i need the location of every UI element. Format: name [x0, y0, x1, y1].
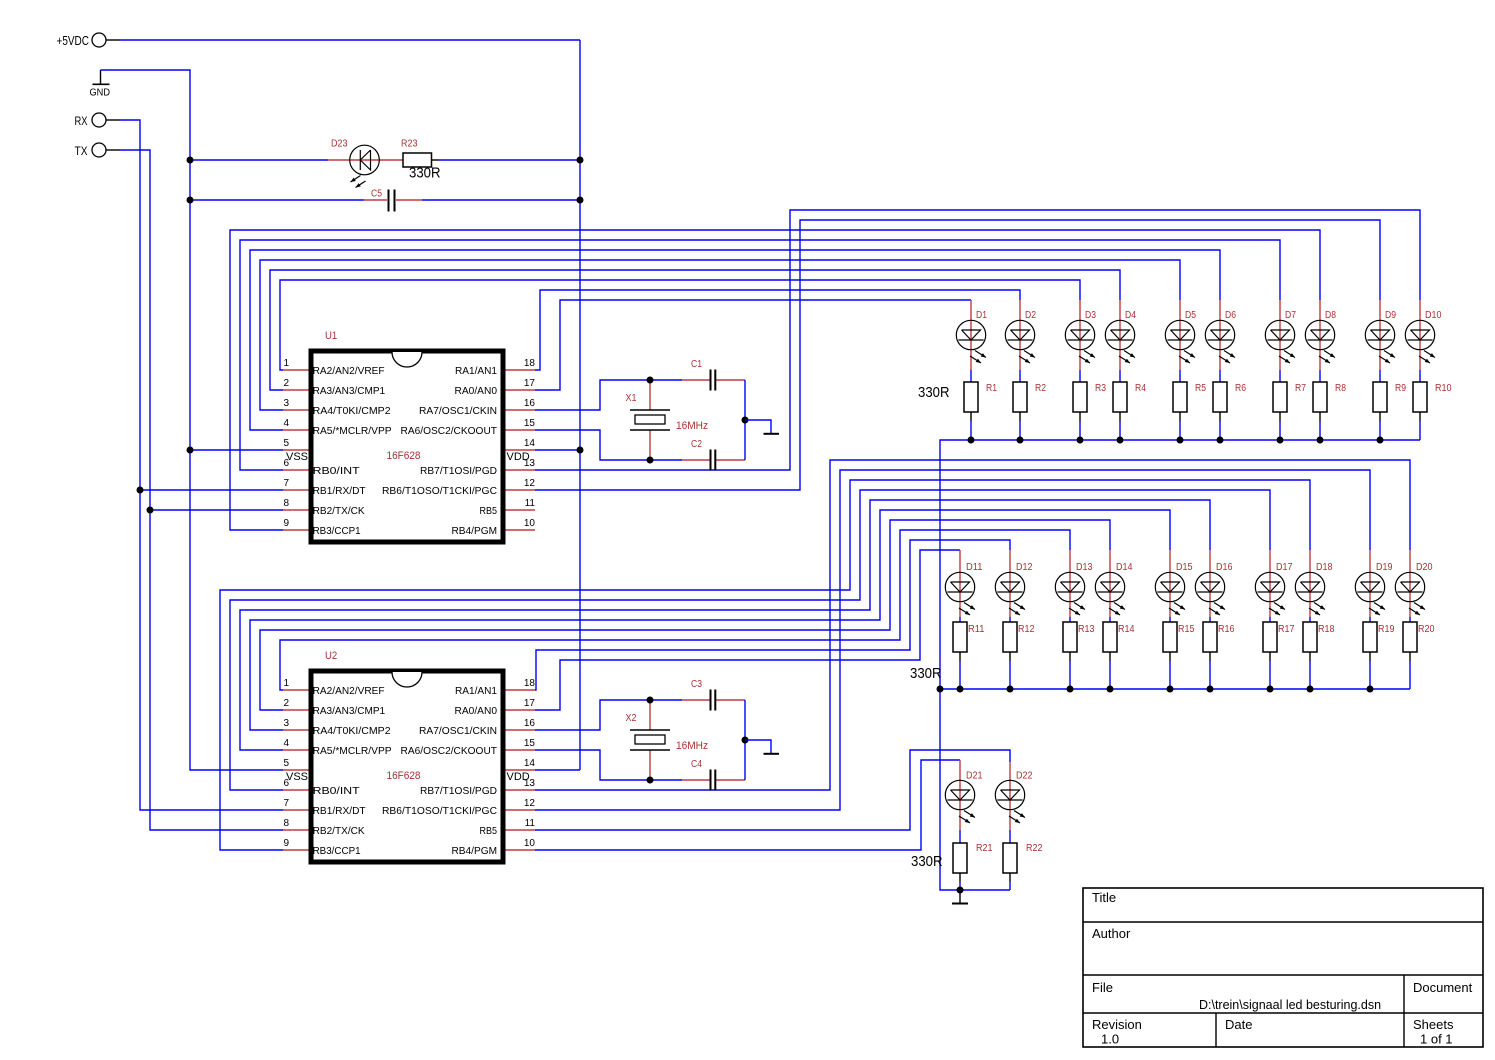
- svg-text:16F628: 16F628: [387, 770, 421, 782]
- svg-text:16: 16: [524, 398, 536, 409]
- U2 pin 7 RB1/RX/DT: [283, 798, 366, 817]
- resistor R20: [1403, 622, 1435, 661]
- junction (1020,440): [1017, 437, 1024, 444]
- LED D3: [1065, 300, 1096, 370]
- junction (580,450): [577, 447, 584, 454]
- LED D8: [1305, 300, 1336, 370]
- junction (150,510): [147, 507, 154, 514]
- title block: [1083, 888, 1483, 1047]
- resistor R15: [1163, 622, 1195, 661]
- wire R20 to bus: [1409, 661, 1411, 689]
- junction (650,780): [647, 777, 654, 784]
- junction (650,380): [647, 377, 654, 384]
- svg-text:R20: R20: [1418, 624, 1435, 635]
- junction (1380,440): [1377, 437, 1384, 444]
- U2 pin 12 RB6/T1OSO/T1CKI/PGC: [382, 798, 535, 817]
- svg-text:RB5: RB5: [480, 505, 498, 517]
- svg-text:18: 18: [524, 678, 536, 689]
- svg-text:R4: R4: [1135, 383, 1146, 394]
- U2 pin 8 RB2/TX/CK: [283, 818, 365, 837]
- LED D20: [1395, 550, 1433, 617]
- wire U1 pin12 RB6 to D9: [535, 220, 1380, 490]
- ground symbol near X2: [764, 753, 780, 755]
- svg-text:RA0/AN0: RA0/AN0: [455, 705, 498, 717]
- U1 pin 17 RA0/AN0: [455, 378, 536, 397]
- wire R10 to bus: [1419, 421, 1421, 440]
- svg-text:2: 2: [284, 698, 290, 709]
- wire U2 pin12 RB6 to D19: [535, 470, 1370, 810]
- LED D23: [328, 139, 403, 190]
- wire to ground X2: [745, 740, 771, 753]
- junction (190,160): [187, 157, 194, 164]
- LED D1: [956, 300, 987, 370]
- resistor R10: [1413, 382, 1452, 421]
- svg-text:1: 1: [284, 678, 290, 689]
- svg-text:16: 16: [524, 718, 536, 729]
- svg-text:R18: R18: [1318, 624, 1335, 635]
- svg-text:GND: GND: [90, 88, 111, 99]
- svg-text:13: 13: [524, 778, 536, 789]
- svg-text:D13: D13: [1076, 562, 1093, 573]
- ground symbol near X1: [764, 433, 780, 435]
- wire D2 to R2: [1019, 370, 1021, 382]
- capacitor C5: [364, 189, 422, 212]
- svg-text:16MHz: 16MHz: [676, 740, 708, 752]
- wire R1 to bus: [970, 421, 972, 440]
- wire D17 to R17: [1269, 617, 1271, 622]
- svg-text:RB4/PGM: RB4/PGM: [452, 525, 498, 537]
- svg-text:R16: R16: [1218, 624, 1235, 635]
- svg-text:5: 5: [284, 758, 290, 769]
- svg-text:330R: 330R: [918, 384, 950, 401]
- wire D14 to R14: [1109, 617, 1111, 622]
- U2 pin 9 RB3/CCP1: [283, 838, 361, 857]
- svg-text:RB5: RB5: [480, 825, 498, 837]
- junction (650,460): [647, 457, 654, 464]
- svg-text:D17: D17: [1276, 562, 1293, 573]
- svg-text:X1: X1: [626, 393, 637, 404]
- wire R11 to bus: [959, 661, 961, 689]
- resistor R6: [1213, 382, 1246, 421]
- wire U1 pin16 OSC1 to X1 top: [535, 380, 682, 410]
- LED D15: [1155, 550, 1193, 617]
- label 330R D21 D22: [911, 853, 943, 870]
- wire RX to U1 pin7 and U2 pin7: [120, 120, 283, 810]
- wire D7 to R7: [1279, 370, 1281, 382]
- svg-text:16F628: 16F628: [387, 450, 421, 462]
- svg-text:R17: R17: [1278, 624, 1295, 635]
- U2 pin 17 RA0/AN0: [455, 698, 536, 717]
- svg-text:D12: D12: [1016, 562, 1033, 573]
- junction (190,200): [187, 197, 194, 204]
- wire U1 VDD to +5VDC rail: [535, 449, 580, 451]
- U2 pin 13 RB7/T1OSI/PGD: [420, 778, 535, 797]
- svg-text:12: 12: [524, 478, 536, 489]
- wire R9 to bus: [1379, 421, 1381, 440]
- svg-text:R23: R23: [401, 139, 418, 150]
- resistor R8: [1313, 382, 1346, 421]
- svg-text:RA6/OSC2/CKOOUT: RA6/OSC2/CKOOUT: [401, 745, 498, 757]
- wire D20 to R20: [1409, 617, 1411, 622]
- junction (1110,689): [1107, 686, 1114, 693]
- resistor R14: [1103, 622, 1135, 661]
- svg-text:D23: D23: [331, 139, 348, 150]
- junction (1180,440): [1177, 437, 1184, 444]
- svg-text:6: 6: [284, 458, 290, 469]
- LED D19: [1355, 550, 1393, 617]
- svg-text:D18: D18: [1316, 562, 1333, 573]
- wire C5 to +5VDC: [422, 199, 580, 201]
- junction (1220,440): [1217, 437, 1224, 444]
- wire U2 pin2 RA3 to D14: [260, 520, 1110, 710]
- wire TX to U1 pin8 and U2 pin8: [120, 150, 283, 830]
- wire D3 to R3: [1079, 370, 1081, 382]
- wire U2 pin4 RA5 to D16: [240, 500, 1210, 750]
- U1 pin 18 RA1/AN1: [455, 358, 535, 377]
- svg-text:8: 8: [284, 818, 290, 829]
- wire to ground X1: [745, 420, 771, 433]
- wire R8 to bus: [1319, 421, 1321, 440]
- resistor R23: [401, 139, 441, 182]
- svg-text:D16: D16: [1216, 562, 1233, 573]
- svg-text:D8: D8: [1325, 310, 1336, 321]
- resistor R7: [1273, 382, 1306, 421]
- svg-text:RB2/TX/CK: RB2/TX/CK: [313, 505, 365, 517]
- LED D4: [1105, 300, 1136, 370]
- wire U1 pin1 RA2 to D3: [280, 280, 1080, 370]
- wire D19 to R19: [1369, 617, 1371, 622]
- U1 pin 6 RB0/INT: [283, 458, 360, 477]
- svg-text:D11: D11: [966, 562, 983, 573]
- wire R16 to bus: [1209, 661, 1211, 689]
- label 330R row2: [910, 665, 942, 682]
- wire R3 to bus: [1079, 421, 1081, 440]
- junction (580,160): [577, 157, 584, 164]
- capacitor C1: [682, 359, 745, 391]
- svg-text:4: 4: [284, 738, 290, 749]
- svg-text:VSS: VSS: [286, 451, 308, 463]
- svg-text:14: 14: [524, 758, 536, 769]
- wire D9 to R9: [1379, 370, 1381, 382]
- junction (1120,440): [1117, 437, 1124, 444]
- wire D10 to R10: [1419, 370, 1421, 382]
- svg-text:1: 1: [284, 358, 290, 369]
- svg-text:RB4/PGM: RB4/PGM: [452, 845, 498, 857]
- svg-text:10: 10: [524, 838, 536, 849]
- resistor R21: [953, 843, 993, 882]
- svg-text:RB7/T1OSI/PGD: RB7/T1OSI/PGD: [420, 465, 497, 477]
- svg-text:RB1/RX/DT: RB1/RX/DT: [313, 805, 367, 817]
- svg-text:11: 11: [525, 498, 536, 509]
- wire R17 to bus: [1269, 661, 1271, 689]
- svg-text:Revision: Revision: [1092, 1017, 1142, 1032]
- resistor R22: [1003, 843, 1043, 882]
- svg-text:RA6/OSC2/CKOOUT: RA6/OSC2/CKOOUT: [401, 425, 498, 437]
- svg-text:D20: D20: [1416, 562, 1433, 573]
- junction (1210,689): [1207, 686, 1214, 693]
- wire R12 to bus: [1009, 661, 1011, 689]
- svg-text:U1: U1: [325, 330, 337, 342]
- junction (1270,689): [1267, 686, 1274, 693]
- U1 pin 5 VSS: [283, 438, 309, 463]
- svg-text:17: 17: [524, 698, 536, 709]
- ground symbol bottom: [952, 890, 968, 904]
- IC U1 16F628 body: [311, 330, 503, 542]
- svg-text:8: 8: [284, 498, 290, 509]
- wire D12 to R12: [1009, 617, 1011, 622]
- svg-text:RB0/INT: RB0/INT: [313, 465, 361, 477]
- LED D21: [945, 760, 983, 830]
- svg-text:R12: R12: [1018, 624, 1035, 635]
- ground symbol GND: [90, 70, 111, 99]
- wire D5 to R5: [1179, 370, 1181, 382]
- wire U2 pin1 RA2 to D13: [280, 530, 1070, 690]
- svg-text:3: 3: [284, 398, 290, 409]
- wire U1 pin15 OSC2 to X1 bottom: [535, 430, 682, 460]
- LED D10: [1405, 300, 1442, 370]
- wire U2 pin6 RB0 to D17: [230, 490, 1270, 790]
- svg-text:RX: RX: [75, 116, 88, 128]
- junction (745,420): [742, 417, 749, 424]
- svg-text:330R: 330R: [910, 665, 942, 682]
- svg-text:D21: D21: [966, 771, 983, 782]
- svg-text:File: File: [1092, 980, 1113, 995]
- svg-text:Author: Author: [1092, 926, 1131, 941]
- wire U2 pin9 RB3 to D18: [220, 480, 1310, 850]
- svg-text:RA5/*MCLR/VPP: RA5/*MCLR/VPP: [313, 745, 392, 757]
- svg-text:15: 15: [524, 418, 536, 429]
- wire R2 to bus: [1019, 421, 1021, 440]
- U1 pin 16 RA7/OSC1/CKIN: [419, 398, 535, 417]
- svg-text:D2: D2: [1025, 310, 1036, 321]
- wire U1 pin18 RA1 to D2: [535, 290, 1020, 370]
- wire U2 pin16 OSC1 to X2 top: [535, 700, 682, 730]
- svg-text:RA0/AN0: RA0/AN0: [455, 385, 498, 397]
- svg-text:RA3/AN3/CMP1: RA3/AN3/CMP1: [313, 705, 386, 717]
- U1 pin 4 RA5/*MCLR/VPP: [283, 418, 392, 437]
- resistor R9: [1373, 382, 1406, 421]
- crystal X2 16MHz: [626, 700, 709, 780]
- LED D18: [1295, 550, 1333, 617]
- svg-text:330R: 330R: [409, 165, 441, 182]
- resistor R3: [1073, 382, 1106, 421]
- U1 pin 10 RB4/PGM: [452, 518, 536, 537]
- wire D18 to R18: [1309, 617, 1311, 622]
- wire GND net to U1 VSS and U2 VSS: [101, 70, 284, 770]
- U1 pin 2 RA3/AN3/CMP1: [283, 378, 385, 397]
- U2 pin 15 RA6/OSC2/CKOOUT: [401, 738, 536, 757]
- svg-text:10: 10: [524, 518, 536, 529]
- resistor R18: [1303, 622, 1335, 661]
- svg-text:D3: D3: [1085, 310, 1096, 321]
- wire D11 to R11: [959, 617, 961, 622]
- junction (190,450): [187, 447, 194, 454]
- svg-text:C4: C4: [691, 759, 702, 770]
- svg-text:R19: R19: [1378, 624, 1395, 635]
- wire LED row1 ground bus: [940, 440, 1420, 890]
- wire U1 VSS to GND rail: [190, 449, 283, 451]
- svg-text:14: 14: [524, 438, 536, 449]
- junction (1070,689): [1067, 686, 1074, 693]
- U2 pin 16 RA7/OSC1/CKIN: [419, 718, 535, 737]
- svg-text:RB0/INT: RB0/INT: [313, 785, 361, 797]
- wire U1 pin9 RB3 to D8: [230, 230, 1320, 530]
- svg-text:D1: D1: [976, 310, 987, 321]
- U1 pin 1 RA2/AN2/VREF: [283, 358, 385, 377]
- wire U1 pin7 RB1 to RX rail: [140, 489, 283, 491]
- svg-text:5: 5: [284, 438, 290, 449]
- U2 pin 6 RB0/INT: [283, 778, 360, 797]
- svg-text:R15: R15: [1178, 624, 1195, 635]
- U1 pin 7 RB1/RX/DT: [283, 478, 366, 497]
- svg-text:C3: C3: [691, 679, 702, 690]
- LED D22: [995, 762, 1033, 830]
- LED D11: [945, 550, 983, 617]
- junction (745,740): [742, 737, 749, 744]
- resistor R5: [1173, 382, 1206, 421]
- svg-text:R9: R9: [1395, 383, 1406, 394]
- svg-text:13: 13: [524, 458, 536, 469]
- junction (971,440): [968, 437, 975, 444]
- svg-text:R6: R6: [1235, 383, 1246, 394]
- svg-text:C5: C5: [371, 189, 382, 200]
- svg-text:D4: D4: [1125, 310, 1136, 321]
- resistor R17: [1263, 622, 1295, 661]
- wire U1 pin2 RA3 to D4: [270, 270, 1120, 390]
- wire U2 pin17 RA0 to D11: [535, 550, 960, 710]
- wire U2 pin11 RB5 to D22: [535, 750, 1010, 830]
- resistor R19: [1363, 622, 1395, 661]
- svg-text:RA4/T0KI/CMP2: RA4/T0KI/CMP2: [313, 405, 391, 417]
- svg-text:9: 9: [284, 518, 290, 529]
- port RX: [75, 113, 121, 128]
- wire R23 to +5VDC: [439, 159, 581, 161]
- wire R7 to bus: [1279, 421, 1281, 440]
- svg-text:RA2/AN2/VREF: RA2/AN2/VREF: [313, 685, 385, 697]
- wire U1 pin3 RA4 to D5: [260, 260, 1180, 410]
- LED D16: [1195, 550, 1233, 617]
- svg-text:R3: R3: [1095, 383, 1106, 394]
- U2 pin 2 RA3/AN3/CMP1: [283, 698, 385, 717]
- junction (1310,689): [1307, 686, 1314, 693]
- svg-text:RB7/T1OSI/PGD: RB7/T1OSI/PGD: [420, 785, 497, 797]
- LED D9: [1365, 300, 1396, 370]
- LED D14: [1095, 550, 1133, 617]
- svg-text:RA1/AN1: RA1/AN1: [455, 365, 497, 377]
- capacitor C3: [682, 679, 745, 711]
- wire U2 pin15 OSC2 to X2 bottom: [535, 750, 682, 780]
- svg-text:RB2/TX/CK: RB2/TX/CK: [313, 825, 365, 837]
- wire D1 to R1: [970, 370, 972, 382]
- label 330R row1: [918, 384, 950, 401]
- svg-text:RB6/T1OSO/T1CKI/PGC: RB6/T1OSO/T1CKI/PGC: [382, 485, 497, 497]
- svg-text:Date: Date: [1225, 1017, 1252, 1032]
- svg-text:Sheets: Sheets: [1413, 1017, 1454, 1032]
- LED D13: [1055, 550, 1093, 617]
- wire U1 pin17 RA0 to D1: [535, 300, 971, 390]
- wire U2 VDD to +5VDC rail: [535, 769, 580, 771]
- wire D8 to R8: [1319, 370, 1321, 382]
- svg-text:RA5/*MCLR/VPP: RA5/*MCLR/VPP: [313, 425, 392, 437]
- wire LED row2 ground bus: [940, 688, 1410, 690]
- svg-text:R22: R22: [1026, 843, 1043, 854]
- U2 pin 18 RA1/AN1: [455, 678, 535, 697]
- svg-text:12: 12: [524, 798, 536, 809]
- wire GND to D23: [190, 159, 328, 161]
- wire R6 to bus: [1219, 421, 1221, 440]
- svg-text:R14: R14: [1118, 624, 1135, 635]
- svg-text:U2: U2: [325, 650, 337, 662]
- wire U1 pin4 RA5 to D6: [250, 250, 1220, 430]
- svg-text:C1: C1: [691, 359, 702, 370]
- svg-text:1.0: 1.0: [1101, 1032, 1119, 1047]
- LED D5: [1165, 300, 1196, 370]
- U1 pin 8 RB2/TX/CK: [283, 498, 365, 517]
- svg-text:D7: D7: [1285, 310, 1296, 321]
- wire U1 pin8 RB2 to TX rail: [150, 509, 283, 511]
- wire D16 to R16: [1209, 617, 1211, 622]
- junction (940,689): [937, 686, 944, 693]
- U1 pin 12 RB6/T1OSO/T1CKI/PGC: [382, 478, 535, 497]
- svg-text:11: 11: [525, 818, 536, 829]
- port TX: [75, 143, 121, 158]
- resistor R12: [1003, 622, 1035, 661]
- capacitor C2: [682, 439, 745, 471]
- wire D15 to R15: [1169, 617, 1171, 622]
- svg-text:D19: D19: [1376, 562, 1393, 573]
- junction (1370,689): [1367, 686, 1374, 693]
- wire U2 pin13 RB7 to D20: [535, 460, 1410, 790]
- junction (1010,689): [1007, 686, 1014, 693]
- U2 pin 10 RB4/PGM: [452, 838, 536, 857]
- svg-text:D15: D15: [1176, 562, 1193, 573]
- wire U1 pin6 RB0 to D7: [240, 240, 1280, 470]
- U1 pin 14 VDD: [506, 438, 536, 463]
- svg-text:RA7/OSC1/CKIN: RA7/OSC1/CKIN: [419, 725, 497, 737]
- svg-text:15: 15: [524, 738, 536, 749]
- junction (960,890): [957, 887, 964, 894]
- wire R21 to ground node: [959, 882, 961, 890]
- svg-text:18: 18: [524, 358, 536, 369]
- wire U2 pin3 RA4 to D15: [250, 510, 1170, 730]
- svg-text:R5: R5: [1195, 383, 1206, 394]
- wire R15 to bus: [1169, 661, 1171, 689]
- wire D22 to R22: [1009, 830, 1011, 843]
- wire R14 to bus: [1109, 661, 1111, 689]
- svg-text:RA7/OSC1/CKIN: RA7/OSC1/CKIN: [419, 405, 497, 417]
- wire R22 to ground node: [1009, 882, 1011, 890]
- junction (960,689): [957, 686, 964, 693]
- U2 pin 3 RA4/T0KI/CMP2: [283, 718, 391, 737]
- svg-text:Title: Title: [1092, 890, 1116, 905]
- svg-text:7: 7: [284, 478, 290, 489]
- crystal X1 16MHz: [626, 380, 709, 460]
- svg-text:D22: D22: [1016, 771, 1033, 782]
- svg-text:D6: D6: [1225, 310, 1236, 321]
- U2 pin 11 RB5: [480, 818, 536, 837]
- U2 pin 1 RA2/AN2/VREF: [283, 678, 385, 697]
- wire X1 right side: [744, 380, 746, 460]
- U1 pin 11 RB5: [480, 498, 536, 517]
- svg-text:RB3/CCP1: RB3/CCP1: [313, 525, 361, 537]
- U1 pin 15 RA6/OSC2/CKOOUT: [401, 418, 536, 437]
- wire U2 pin10 RB4 to D21: [535, 760, 960, 850]
- junction (1080,440): [1077, 437, 1084, 444]
- wire R18 to bus: [1309, 661, 1311, 689]
- power terminal +5VDC: [57, 33, 581, 770]
- svg-text:D:\trein\signaal led besturing: D:\trein\signaal led besturing.dsn: [1199, 998, 1381, 1012]
- svg-text:RA1/AN1: RA1/AN1: [455, 685, 497, 697]
